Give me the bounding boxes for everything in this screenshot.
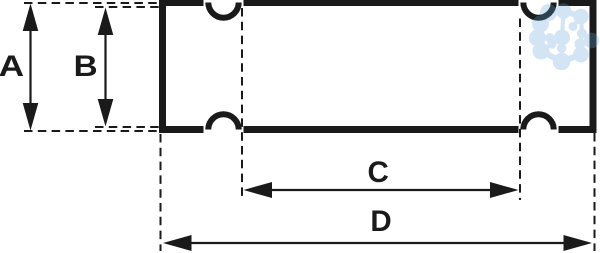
svg-text:D: D [370, 205, 391, 238]
svg-text:B: B [74, 50, 98, 83]
svg-text:C: C [368, 156, 389, 189]
svg-text:A: A [0, 50, 24, 83]
